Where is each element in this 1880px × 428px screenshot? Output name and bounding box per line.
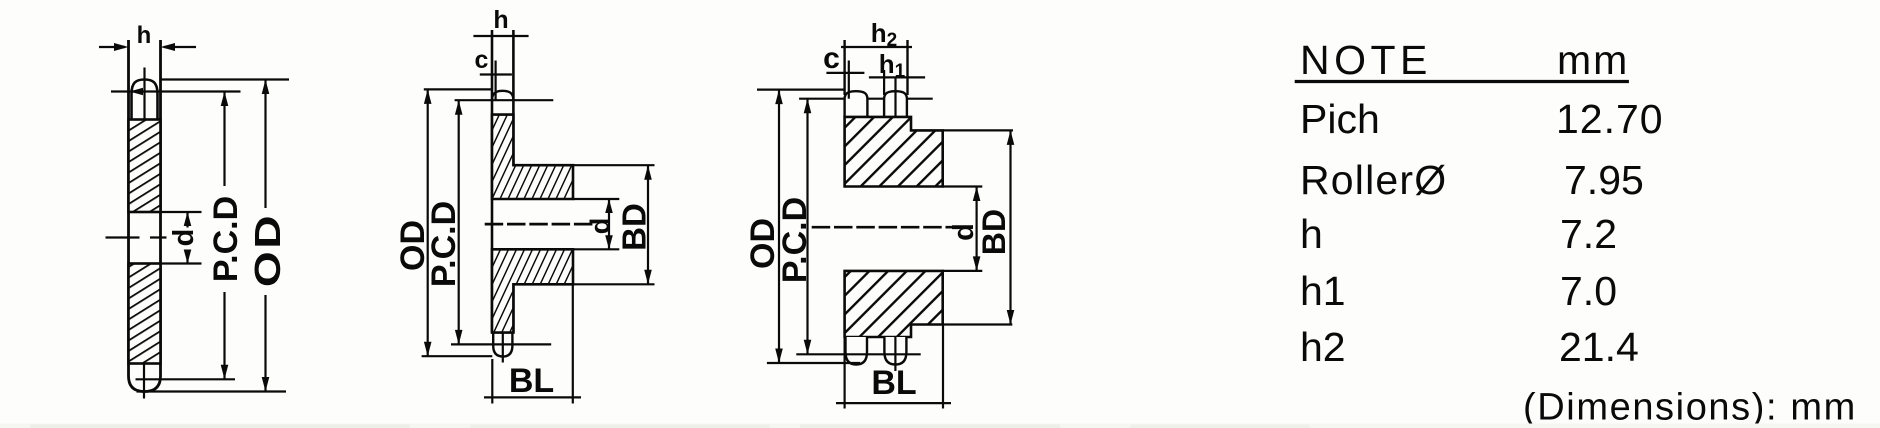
svg-text:OD: OD	[248, 213, 288, 287]
svg-text:h: h	[137, 22, 152, 49]
svg-text:7.2: 7.2	[1560, 211, 1617, 257]
svg-text:BD: BD	[616, 203, 653, 251]
svg-text:(Dimensions): mm: (Dimensions): mm	[1523, 387, 1857, 428]
svg-text:7.95: 7.95	[1564, 157, 1644, 203]
svg-text:NOTE: NOTE	[1300, 37, 1432, 83]
svg-text:P.C.D: P.C.D	[776, 197, 814, 283]
svg-text:Pich: Pich	[1300, 96, 1380, 142]
svg-text:BL: BL	[871, 364, 916, 402]
svg-text:h: h	[1300, 211, 1323, 257]
svg-text:c: c	[823, 42, 840, 75]
svg-text:mm: mm	[1557, 37, 1629, 83]
svg-text:BD: BD	[976, 209, 1012, 255]
svg-text:h2: h2	[1300, 324, 1346, 370]
svg-text:RollerØ: RollerØ	[1300, 157, 1447, 203]
svg-text:d: d	[168, 229, 200, 247]
svg-text:21.4: 21.4	[1559, 324, 1639, 370]
svg-text:h: h	[493, 6, 508, 34]
svg-text:P.C.D: P.C.D	[207, 196, 245, 282]
svg-text:7.0: 7.0	[1560, 268, 1617, 314]
svg-text:12.70: 12.70	[1556, 96, 1664, 142]
svg-text:d: d	[585, 218, 615, 235]
svg-text:h1: h1	[1300, 268, 1346, 314]
svg-text:c: c	[475, 46, 489, 74]
svg-text:P.C.D: P.C.D	[425, 201, 463, 287]
svg-text:BL: BL	[509, 362, 554, 400]
